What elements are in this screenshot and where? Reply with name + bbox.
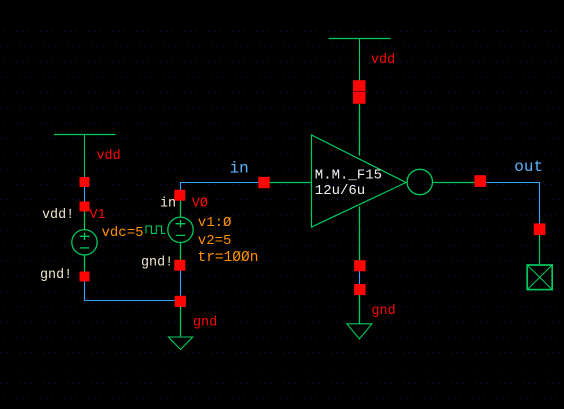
svg-text:v2=5: v2=5	[198, 233, 232, 249]
svg-text:vdd: vdd	[97, 149, 121, 164]
pin square output io pin	[534, 223, 546, 235]
wire net in from V0 plus up and right to inverter input	[181, 183, 263, 194]
svg-text:gnd!: gnd!	[40, 268, 72, 283]
wire net gnd between inverter gnd pin and gnd symbol pin	[359, 266, 361, 289]
pin square inverter vdd pin	[353, 92, 366, 104]
svg-text:gnd: gnd	[193, 316, 217, 331]
svg-text:V1: V1	[90, 208, 106, 223]
voltage source V0 (vpulse)	[146, 201, 193, 263]
junction pin square gnd symbol (left)	[175, 296, 186, 307]
pin square inverter gnd pin	[354, 260, 366, 271]
svg-text:in: in	[160, 196, 176, 211]
svg-text:gnd: gnd	[372, 304, 396, 319]
pin square V0 minus	[174, 260, 185, 271]
voltage source V1 (vdc)	[72, 211, 97, 273]
svg-text:vdc=5: vdc=5	[102, 225, 144, 241]
svg-text:v1:Ø: v1:Ø	[198, 215, 232, 231]
svg-text:M.M._F15: M.M._F15	[315, 168, 382, 184]
svg-text:vdd: vdd	[371, 53, 395, 68]
wire net out from output pin square right then down	[483, 183, 540, 229]
svg-text:12u/6u: 12u/6u	[315, 183, 365, 199]
svg-text:vdd!: vdd!	[42, 208, 74, 223]
wire net gnd! from V0 minus down to junction	[180, 267, 182, 301]
vdd rail symbol top	[329, 39, 391, 82]
pin square of top vdd rail	[353, 80, 366, 91]
pin square V0 plus	[174, 190, 185, 201]
output pin symbol (box with X)	[527, 235, 552, 290]
vdd rail symbol left	[54, 135, 116, 179]
ground symbol gnd inverter	[347, 295, 372, 339]
svg-text:gnd!: gnd!	[141, 256, 173, 271]
wire net vdd left (rail pin to V1 plus)	[84, 183, 86, 205]
pin square V1 plus	[80, 202, 90, 212]
pin square inverter output	[474, 175, 486, 187]
svg-text:out: out	[514, 158, 543, 176]
svg-text:in: in	[230, 160, 249, 178]
pin square inverter input	[258, 177, 269, 188]
pin square gnd symbol (inverter)	[354, 284, 366, 295]
pin square V1 minus	[80, 272, 90, 282]
ground symbol gnd left	[168, 307, 192, 350]
op-amp / inverter U1 M.M._F15	[270, 104, 475, 261]
pin square of left vdd rail	[80, 177, 90, 187]
svg-text:tr=1ØØn: tr=1ØØn	[198, 250, 259, 266]
wire net gnd! from V1 minus down and right to junction	[85, 278, 181, 301]
svg-text:VØ: VØ	[192, 197, 208, 212]
